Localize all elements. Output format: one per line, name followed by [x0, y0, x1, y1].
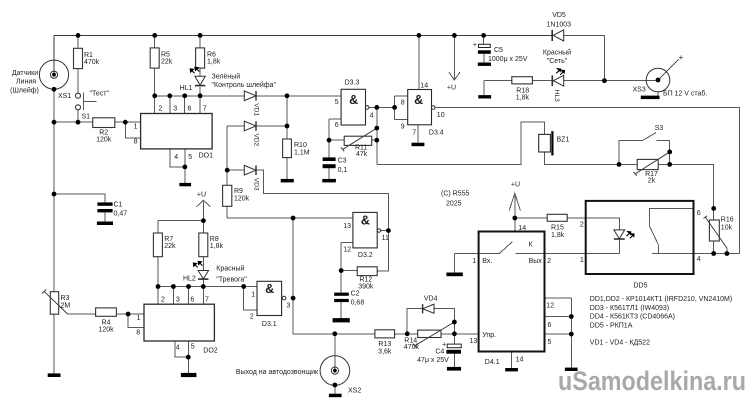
svg-text:XS3: XS3 — [633, 86, 646, 93]
svg-text:R6: R6 — [207, 52, 216, 59]
svg-text:6: 6 — [697, 210, 701, 217]
svg-text:14: 14 — [516, 356, 524, 363]
svg-text:5: 5 — [188, 154, 192, 161]
svg-text:5: 5 — [191, 344, 195, 351]
svg-text:47μ x 25V: 47μ x 25V — [417, 357, 449, 364]
svg-text:13: 13 — [343, 223, 351, 230]
svg-text:1: 1 — [134, 123, 138, 130]
svg-text:10: 10 — [437, 112, 445, 119]
svg-text:R10: R10 — [294, 142, 307, 149]
svg-text:1: 1 — [137, 315, 141, 322]
svg-text:DD1,DD2 - КР1014КТ1 (IRFD210,: DD1,DD2 - КР1014КТ1 (IRFD210, VN2410M) — [590, 296, 732, 303]
svg-text:1,8k: 1,8k — [551, 232, 565, 239]
svg-text:"Контроль шлейфа": "Контроль шлейфа" — [212, 81, 277, 89]
svg-text:Линия: Линия — [16, 79, 36, 86]
svg-text:DD4 - К561КТ3 (CD4066A): DD4 - К561КТ3 (CD4066A) — [590, 314, 675, 321]
svg-text:6: 6 — [335, 122, 339, 129]
svg-text:R13: R13 — [378, 341, 391, 348]
svg-text:8: 8 — [134, 139, 138, 146]
svg-text:VD2: VD2 — [252, 134, 259, 147]
svg-text:XS1: XS1 — [58, 93, 71, 100]
svg-text:2: 2 — [161, 296, 165, 303]
svg-text:VD4: VD4 — [424, 296, 438, 303]
svg-text:+U: +U — [447, 85, 456, 92]
svg-text:XS2: XS2 — [348, 387, 361, 394]
svg-text:Датчики: Датчики — [12, 70, 38, 77]
svg-text:C4: C4 — [435, 348, 444, 355]
svg-text:D3.3: D3.3 — [345, 79, 360, 86]
svg-text:120k: 120k — [234, 196, 250, 203]
svg-text:R7: R7 — [164, 236, 173, 243]
svg-text:0,68: 0,68 — [351, 300, 365, 307]
svg-text:VD3: VD3 — [252, 178, 259, 191]
svg-text:3: 3 — [173, 106, 177, 113]
svg-text:D3.2: D3.2 — [358, 252, 373, 259]
svg-text:2025: 2025 — [446, 201, 462, 208]
svg-text:&: & — [361, 213, 370, 227]
svg-text:1,8k: 1,8k — [207, 59, 221, 66]
svg-text:DD5 - РКП1А: DD5 - РКП1А — [590, 322, 633, 329]
svg-text:0,1: 0,1 — [338, 167, 348, 174]
svg-text:+: + — [473, 42, 477, 49]
svg-text:Выход на автодозвонщик: Выход на автодозвонщик — [236, 369, 319, 376]
svg-text:4: 4 — [176, 345, 180, 352]
svg-text:1: 1 — [251, 291, 255, 298]
svg-text:"Тревога": "Тревога" — [216, 277, 247, 284]
svg-text:R4: R4 — [102, 320, 111, 327]
svg-text:C5: C5 — [494, 47, 503, 54]
svg-text:&: & — [349, 93, 358, 107]
svg-text:DO1: DO1 — [199, 153, 214, 160]
svg-text:1: 1 — [472, 258, 476, 265]
svg-text:8: 8 — [136, 329, 140, 336]
svg-text:22k: 22k — [161, 59, 173, 66]
svg-text:47k: 47k — [356, 151, 368, 158]
svg-text:(C) R555: (C) R555 — [441, 191, 470, 198]
svg-text:1: 1 — [580, 257, 584, 264]
svg-text:+U: +U — [197, 192, 206, 199]
svg-text:"Тест": "Тест" — [90, 90, 110, 97]
svg-text:R18: R18 — [516, 87, 529, 94]
svg-text:4: 4 — [174, 154, 178, 161]
svg-text:+: + — [442, 341, 446, 348]
svg-text:S3: S3 — [655, 125, 664, 132]
svg-text:9: 9 — [401, 124, 405, 131]
svg-text:6: 6 — [548, 322, 552, 329]
svg-text:2k: 2k — [648, 177, 656, 184]
svg-text:+U: +U — [511, 181, 520, 188]
svg-text:Красный: Красный — [216, 265, 244, 273]
svg-text:4: 4 — [370, 113, 374, 120]
svg-text:Упр.: Упр. — [482, 332, 496, 339]
svg-text:R9: R9 — [234, 188, 243, 195]
svg-text:R5: R5 — [161, 52, 170, 59]
svg-text:120k: 120k — [96, 137, 112, 144]
svg-text:DD3 - К561ТЛ1 (IW4093): DD3 - К561ТЛ1 (IW4093) — [590, 305, 669, 312]
svg-text:6: 6 — [190, 296, 194, 303]
svg-text:22k: 22k — [164, 243, 176, 250]
svg-text:VD5: VD5 — [552, 12, 566, 19]
svg-text:HL1: HL1 — [180, 85, 193, 92]
svg-text:&: & — [265, 282, 274, 296]
svg-text:R8: R8 — [210, 236, 219, 243]
svg-text:470k: 470k — [84, 59, 100, 66]
svg-text:HL3: HL3 — [553, 90, 560, 102]
svg-text:470k: 470k — [404, 344, 420, 351]
svg-text:R16: R16 — [721, 217, 734, 224]
svg-text:C3: C3 — [338, 157, 347, 164]
svg-text:8: 8 — [401, 99, 405, 106]
svg-text:2: 2 — [580, 221, 584, 228]
svg-text:2: 2 — [547, 258, 551, 265]
svg-text:R15: R15 — [551, 225, 564, 232]
svg-text:D3.4: D3.4 — [429, 130, 444, 137]
svg-text:4: 4 — [697, 256, 701, 263]
svg-text:D3.1: D3.1 — [262, 321, 277, 328]
svg-text:Вых: Вых — [529, 258, 543, 265]
svg-text:0,47: 0,47 — [114, 210, 128, 217]
svg-text:14: 14 — [518, 225, 526, 232]
svg-text:3: 3 — [176, 296, 180, 303]
svg-text:D4.1: D4.1 — [485, 359, 500, 366]
svg-text:DD5: DD5 — [633, 283, 647, 290]
svg-text:(Шлейф): (Шлейф) — [10, 87, 39, 95]
svg-text:7: 7 — [205, 296, 209, 303]
svg-text:&: & — [414, 93, 423, 107]
svg-text:10k: 10k — [721, 225, 733, 232]
svg-text:БП 12 V стаб.: БП 12 V стаб. — [663, 90, 707, 98]
svg-text:R3: R3 — [61, 295, 70, 302]
svg-text:12: 12 — [343, 247, 351, 254]
svg-text:1,8k: 1,8k — [516, 94, 530, 101]
svg-text:BZ1: BZ1 — [557, 137, 570, 144]
svg-text:12: 12 — [546, 302, 554, 309]
svg-text:6: 6 — [188, 106, 192, 113]
svg-text:VD1 - VD4 - КД522: VD1 - VD4 - КД522 — [590, 339, 650, 346]
svg-text:Зелёный: Зелёный — [212, 73, 241, 81]
svg-text:2: 2 — [250, 314, 254, 321]
svg-text:13: 13 — [470, 338, 478, 345]
svg-text:5: 5 — [335, 99, 339, 106]
svg-text:R12: R12 — [359, 276, 372, 283]
svg-text:Вх.: Вх. — [482, 258, 492, 265]
svg-text:11: 11 — [382, 235, 389, 242]
svg-text:R1: R1 — [84, 52, 93, 59]
svg-text:1000μ x 25V: 1000μ x 25V — [488, 56, 528, 63]
svg-text:5: 5 — [548, 339, 552, 346]
svg-text:120k: 120k — [98, 327, 114, 334]
svg-text:1,1M: 1,1M — [294, 150, 310, 157]
svg-text:R2: R2 — [99, 130, 108, 137]
svg-text:C2: C2 — [351, 291, 360, 298]
svg-text:+: + — [679, 53, 684, 62]
svg-text:uSamodelkina.ru: uSamodelkina.ru — [558, 366, 746, 396]
svg-text:C1: C1 — [114, 201, 123, 208]
svg-text:S1: S1 — [82, 113, 91, 120]
svg-text:HL2: HL2 — [183, 276, 196, 283]
svg-text:14: 14 — [420, 83, 428, 90]
svg-text:3: 3 — [286, 303, 290, 310]
svg-text:"Сеть": "Сеть" — [547, 58, 568, 65]
svg-text:3,6k: 3,6k — [378, 348, 392, 355]
svg-text:2: 2 — [159, 106, 163, 113]
svg-text:1N1003: 1N1003 — [547, 21, 572, 28]
svg-text:1,8k: 1,8k — [210, 243, 224, 250]
svg-text:2M: 2M — [61, 303, 71, 310]
svg-text:390k: 390k — [358, 283, 374, 290]
svg-text:7: 7 — [203, 106, 207, 113]
svg-text:7: 7 — [412, 130, 416, 137]
svg-text:Красный: Красный — [543, 49, 571, 57]
svg-text:VD1: VD1 — [252, 103, 259, 116]
svg-text:DO2: DO2 — [203, 348, 218, 355]
